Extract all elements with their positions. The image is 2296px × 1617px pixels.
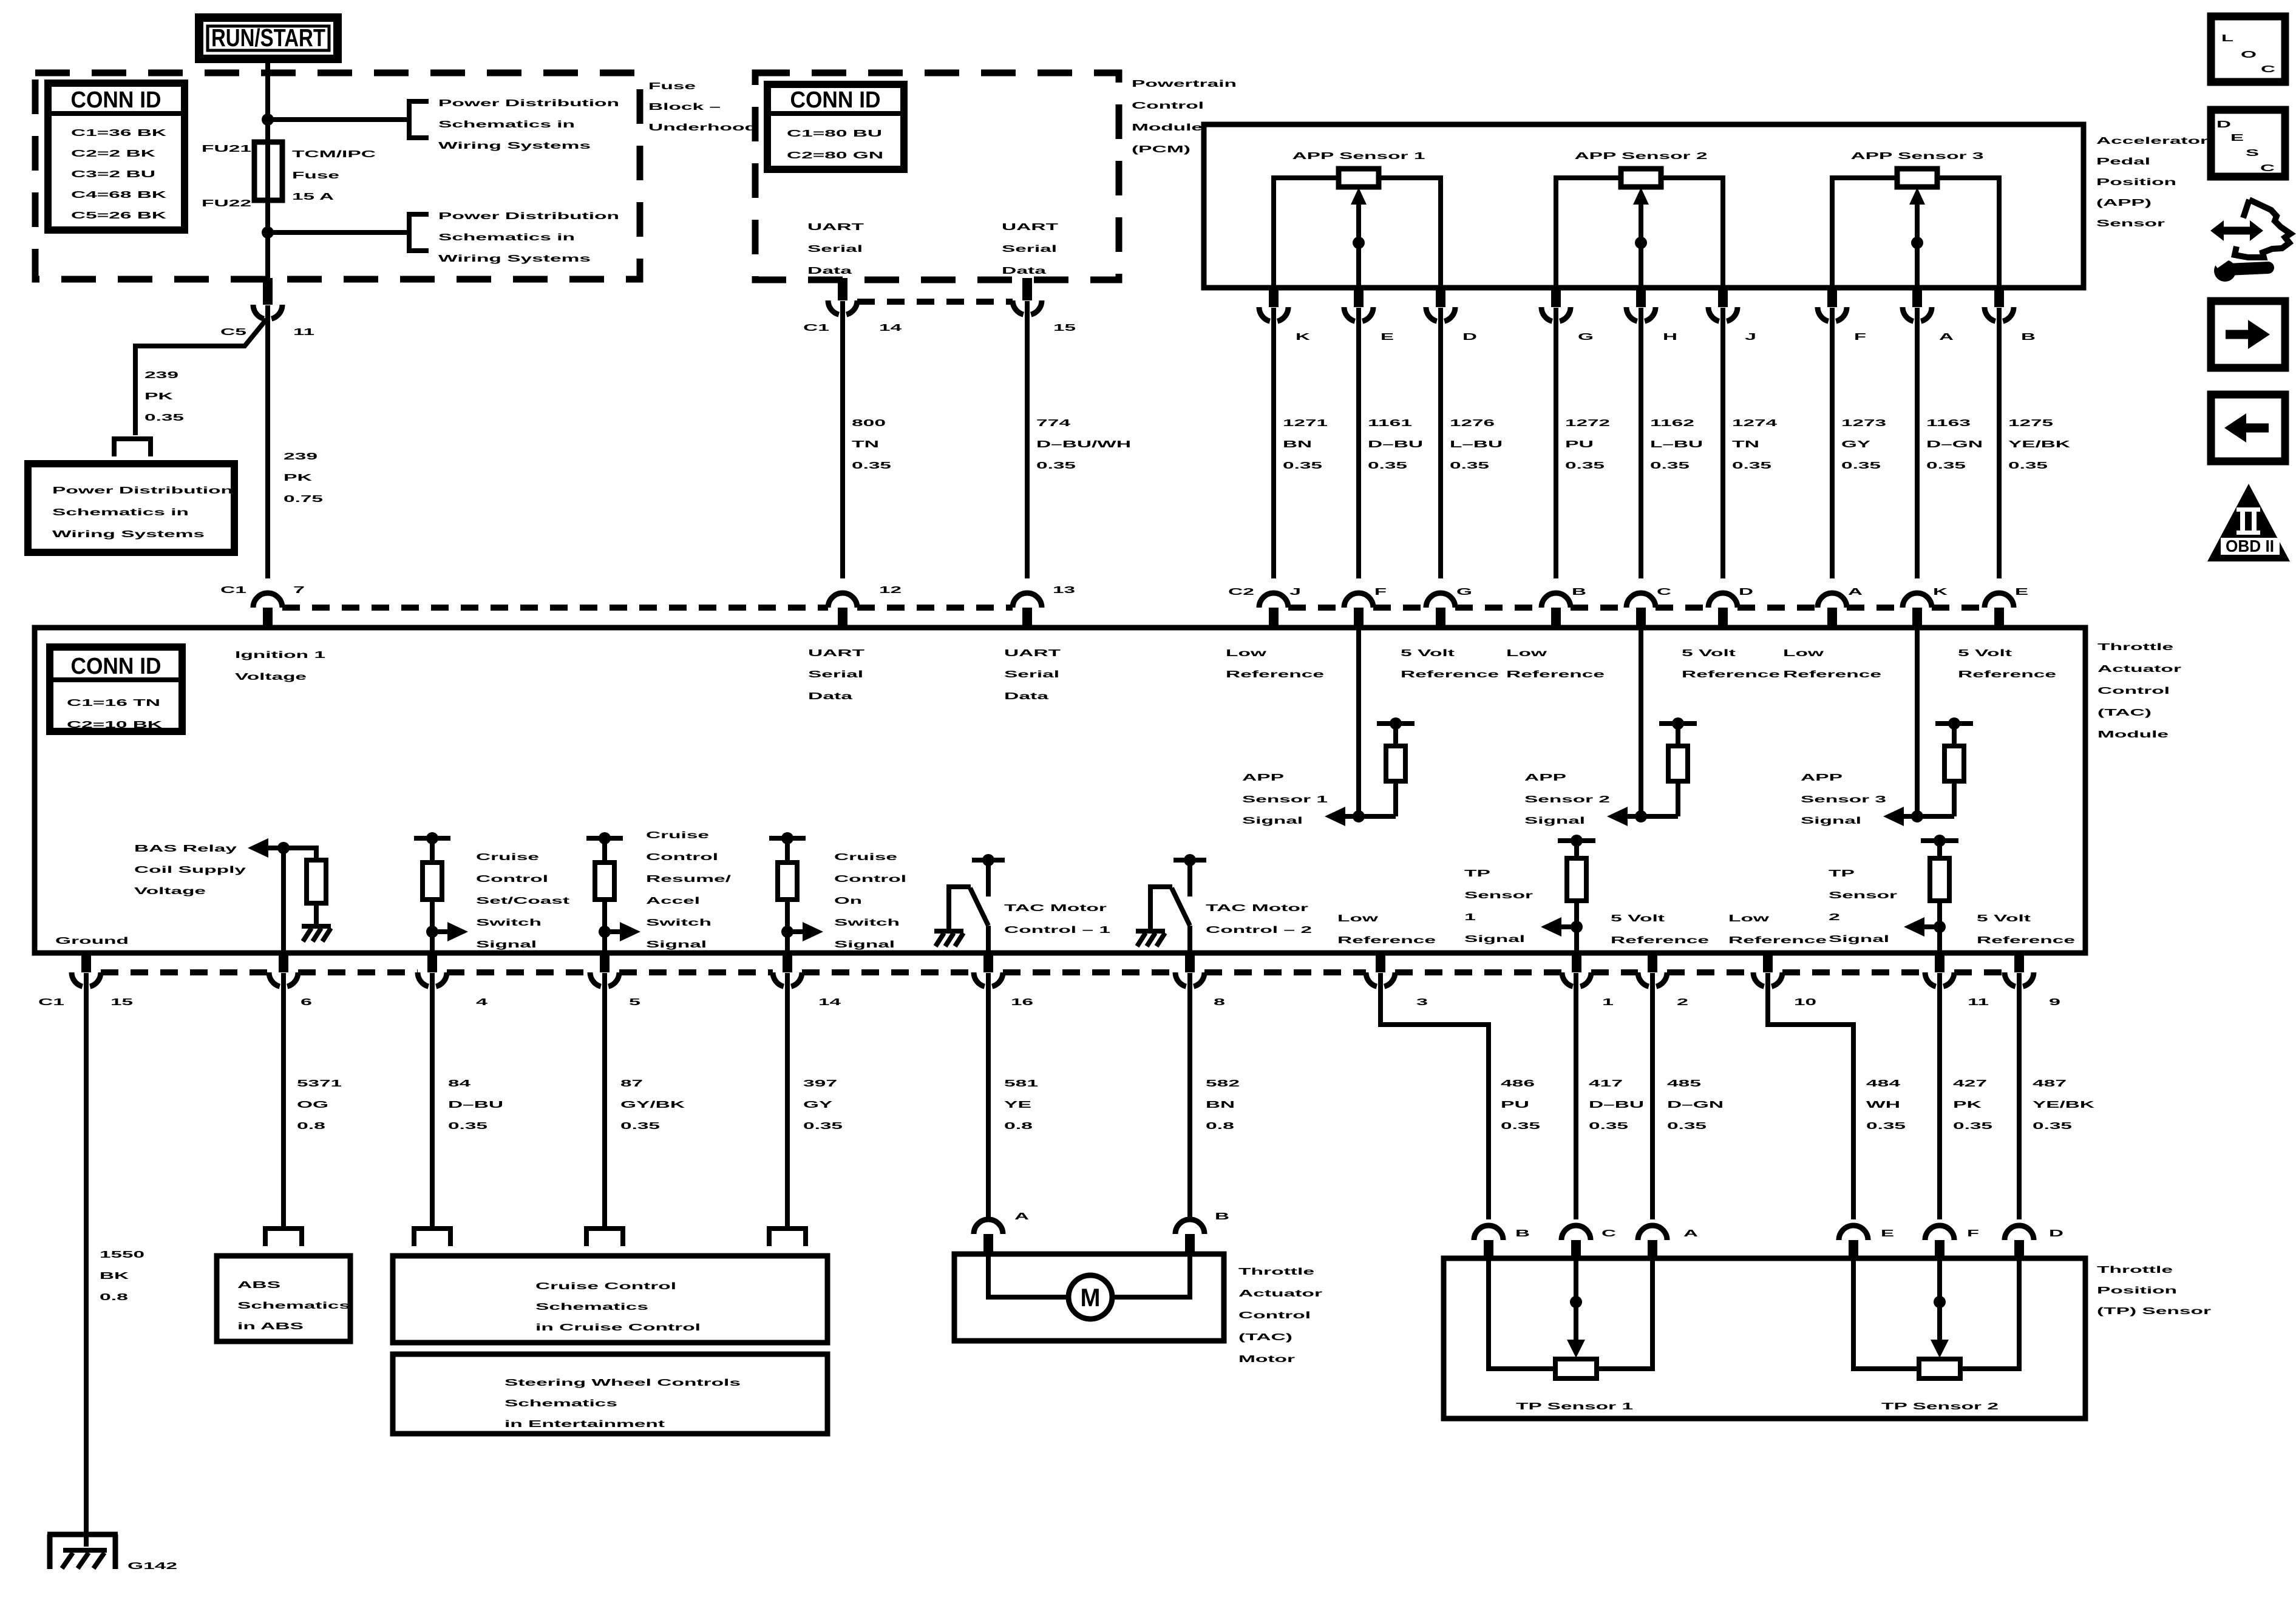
- svg-text:(PCM): (PCM): [1132, 144, 1190, 155]
- svg-text:Low: Low: [1783, 648, 1824, 659]
- label Low Reference TAC top: [1506, 648, 1605, 680]
- svg-text:Control – 1: Control – 1: [1004, 925, 1110, 935]
- connector TAC bottom pin 14: [773, 953, 802, 986]
- svg-text:Actuator: Actuator: [1238, 1289, 1322, 1299]
- label 239 PK 0.35: [144, 370, 184, 423]
- arrow Sensor 2 signal: [1607, 807, 1641, 826]
- bracket into ABS box: [265, 1229, 302, 1246]
- svg-text:APP: APP: [1801, 773, 1843, 783]
- label pin F PCM: [1854, 332, 1866, 342]
- svg-text:581: 581: [1004, 1079, 1038, 1089]
- label pin A TP sensor: [1683, 1229, 1699, 1239]
- svg-text:E: E: [2015, 587, 2029, 597]
- svg-text:FU21: FU21: [202, 144, 251, 154]
- svg-text:D: D: [2216, 120, 2231, 130]
- svg-text:11: 11: [293, 327, 314, 337]
- svg-text:485: 485: [1667, 1079, 1701, 1089]
- svg-text:0.8: 0.8: [1206, 1121, 1234, 1131]
- label pin 15: [1053, 323, 1076, 333]
- svg-text:Schematics: Schematics: [535, 1302, 648, 1312]
- svg-text:GY: GY: [1841, 439, 1871, 450]
- svg-text:C2=10 BK: C2=10 BK: [67, 720, 163, 730]
- svg-text:0.35: 0.35: [1589, 1121, 1628, 1131]
- svg-text:Data: Data: [808, 691, 852, 702]
- connector TP sensor pin D: [2005, 1225, 2034, 1261]
- svg-text:APP Sensor 2: APP Sensor 2: [1575, 151, 1708, 161]
- svg-text:CONN ID: CONN ID: [71, 654, 161, 679]
- dashed connector row TAC C1 top: [282, 605, 828, 611]
- label APP Sensor 3 Signal: [1801, 773, 1886, 826]
- svg-text:Block –: Block –: [648, 102, 721, 112]
- label pin A PCM: [1939, 332, 1954, 342]
- label pin 4: [476, 997, 487, 1008]
- node junction Sensor 1 signal: [1353, 810, 1365, 822]
- svg-text:APP Sensor 1: APP Sensor 1: [1292, 151, 1425, 161]
- svg-text:D–BU: D–BU: [1368, 439, 1423, 450]
- svg-text:8: 8: [1214, 997, 1225, 1008]
- svg-text:UART: UART: [808, 648, 864, 659]
- svg-text:11: 11: [1968, 997, 1989, 1008]
- svg-text:F: F: [1374, 587, 1387, 597]
- label 7 TAC top row: [293, 585, 305, 595]
- potentiometer TP Sensor 1: [1489, 1261, 1652, 1378]
- bracket into power distribution box: [114, 439, 151, 456]
- svg-text:Reference: Reference: [1977, 935, 2075, 946]
- svg-text:0.35: 0.35: [1501, 1121, 1540, 1131]
- svg-text:Serial: Serial: [1004, 670, 1059, 680]
- CONN ID table PCM: [767, 84, 904, 169]
- svg-text:Cruise: Cruise: [834, 852, 897, 863]
- label 5 Volt Reference TAC top: [1401, 648, 1499, 680]
- svg-text:0.35: 0.35: [1283, 461, 1322, 471]
- label 1163 D–GN 0.35: [1926, 418, 1983, 471]
- node junction cruise On: [781, 926, 793, 938]
- connector TAC top pin D: [1708, 593, 1737, 628]
- svg-text:C1=16 TN: C1=16 TN: [67, 698, 160, 708]
- wire 1276 L–BU 0.35: [1438, 308, 1443, 578]
- connector TAC bottom pin 4: [418, 953, 447, 986]
- svg-text:Voltage: Voltage: [134, 886, 206, 897]
- svg-text:O: O: [2241, 50, 2257, 60]
- svg-text:APP: APP: [1524, 773, 1567, 783]
- svg-text:Control: Control: [476, 874, 548, 884]
- motor M winding: [988, 1256, 1190, 1319]
- connector PCM C2 pin H: [1626, 286, 1656, 321]
- svg-text:Position: Position: [2097, 1286, 2177, 1296]
- svg-text:1272: 1272: [1565, 418, 1610, 429]
- label 1276 L–BU 0.35: [1450, 418, 1503, 471]
- label 1274 TN 0.35: [1732, 418, 1777, 471]
- connector PCM C2 pin B: [1985, 286, 2014, 321]
- svg-text:Signal: Signal: [1524, 816, 1585, 826]
- svg-text:C5: C5: [220, 327, 246, 337]
- svg-text:9: 9: [2049, 997, 2060, 1008]
- svg-text:14: 14: [818, 997, 841, 1008]
- svg-text:1274: 1274: [1732, 418, 1777, 429]
- wire 87 GY/BK to cruise control: [602, 973, 607, 1227]
- svg-text:Power Distribution: Power Distribution: [438, 98, 619, 109]
- resistor cruise On switch signal: [769, 832, 806, 953]
- junction node on ignition feed lower: [262, 226, 274, 239]
- label Low Reference TAC bottom: [1728, 914, 1827, 946]
- label 581 YE 0.8: [1004, 1079, 1038, 1131]
- label Power Distribution Schematics in Wiring Systems lower: [438, 211, 619, 264]
- box Steering Wheel Controls Schematics in Entertainment: [393, 1354, 827, 1434]
- label Low Reference TAC top: [1226, 648, 1324, 680]
- label pin K PCM: [1296, 332, 1311, 342]
- svg-text:Reference: Reference: [1506, 670, 1605, 680]
- svg-text:Signal: Signal: [1242, 816, 1303, 826]
- svg-text:Cruise: Cruise: [476, 852, 539, 863]
- connector PCM C2 pin E: [1344, 286, 1373, 321]
- label 774 D-BU/WH 0.35: [1036, 418, 1131, 471]
- bracket into cruise control box: [414, 1229, 450, 1246]
- svg-text:2: 2: [1829, 912, 1840, 923]
- svg-text:239: 239: [284, 452, 318, 462]
- svg-text:Cruise Control: Cruise Control: [535, 1281, 676, 1292]
- svg-text:UART: UART: [807, 222, 864, 232]
- potentiometer APP Sensor 2: [1556, 151, 1723, 288]
- svg-text:239: 239: [144, 370, 178, 381]
- label pin 14: [879, 323, 902, 333]
- svg-text:TN: TN: [1732, 439, 1759, 450]
- connector PCM C2 pin J: [1708, 286, 1737, 321]
- label 5 Volt Reference TAC bottom: [1977, 914, 2075, 946]
- wire 1161 D–BU 0.35: [1356, 308, 1361, 578]
- svg-text:Signal: Signal: [1464, 934, 1525, 944]
- svg-text:FU22: FU22: [202, 198, 251, 209]
- svg-text:0.8: 0.8: [297, 1121, 325, 1131]
- svg-text:(TAC): (TAC): [2097, 708, 2152, 718]
- label 427 PK 0.35: [1953, 1079, 1992, 1131]
- svg-text:OBD II: OBD II: [2226, 537, 2274, 555]
- svg-text:0.35: 0.35: [1926, 461, 1966, 471]
- wire 1274 TN 0.35: [1720, 308, 1725, 578]
- powertrain control module dashed box: [755, 73, 1119, 280]
- potentiometer APP Sensor 3: [1832, 151, 1999, 288]
- box throttle position TP sensor: [1444, 1258, 2085, 1419]
- svg-text:J: J: [1289, 587, 1301, 597]
- resistor pull-up Sensor 2: [1641, 717, 1697, 816]
- arrow BAS relay coil supply voltage: [248, 838, 284, 858]
- label UART Serial Data PCM pin 14: [807, 222, 864, 276]
- svg-text:Sensor: Sensor: [1464, 890, 1533, 901]
- svg-text:Position: Position: [2096, 177, 2176, 188]
- svg-text:OG: OG: [297, 1100, 328, 1110]
- label TAC Motor Control – 1: [1004, 903, 1110, 935]
- svg-text:Schematics in: Schematics in: [52, 507, 189, 518]
- svg-text:3: 3: [1416, 997, 1428, 1008]
- svg-text:TP Sensor 1: TP Sensor 1: [1516, 1402, 1633, 1412]
- svg-text:TP: TP: [1464, 869, 1491, 879]
- svg-text:G: G: [1578, 332, 1594, 342]
- resistor pull-up Sensor 3: [1917, 717, 1973, 816]
- svg-text:E: E: [2230, 133, 2244, 143]
- connector TAC bottom pin 5: [590, 953, 619, 986]
- svg-text:UART: UART: [1002, 222, 1058, 232]
- label Throttle Actuator Control (TAC) Module: [2097, 642, 2181, 740]
- connector PCM C2 pin D: [1426, 286, 1455, 321]
- label pin B TP sensor: [1515, 1229, 1530, 1239]
- svg-text:PK: PK: [144, 392, 174, 402]
- svg-text:Underhood: Underhood: [648, 123, 757, 133]
- svg-text:Reference: Reference: [1401, 670, 1499, 680]
- svg-text:C2=80 GN: C2=80 GN: [787, 151, 883, 161]
- svg-text:E: E: [1381, 332, 1394, 342]
- svg-text:1550: 1550: [100, 1250, 144, 1260]
- svg-text:(APP): (APP): [2096, 198, 2152, 208]
- connector TAC bottom pin 1: [1562, 953, 1591, 986]
- resistor pull-up TP Sensor 1 signal: [1558, 835, 1595, 927]
- label pin 2: [1677, 997, 1688, 1008]
- svg-text:Actuator: Actuator: [2097, 664, 2181, 674]
- svg-text:Module: Module: [2097, 730, 2169, 740]
- svg-text:774: 774: [1036, 418, 1070, 429]
- svg-text:Throttle: Throttle: [2097, 642, 2173, 653]
- potentiometer APP Sensor 1: [1274, 151, 1441, 288]
- connector TAC bottom pin 15: [72, 953, 101, 986]
- label pin 8: [1214, 997, 1225, 1008]
- node junction Sensor 3 signal: [1911, 810, 1923, 822]
- svg-text:Reference: Reference: [1337, 935, 1436, 946]
- svg-text:Ground: Ground: [55, 936, 129, 946]
- svg-text:0.35: 0.35: [803, 1121, 843, 1131]
- wire Sensor 2 signal into TAC: [1639, 628, 1643, 816]
- connector TAC top pin G: [1426, 593, 1455, 628]
- bracket reference power distribution lower: [409, 214, 429, 251]
- connector TAC bottom pin 2: [1638, 953, 1667, 986]
- label 5 Volt Reference TAC bottom: [1611, 914, 1709, 946]
- svg-text:A: A: [1848, 587, 1863, 597]
- wire 582 BN 0.8 to TAC motor: [1187, 973, 1192, 1219]
- wire TP sensor 2 signal to pin: [1937, 927, 1942, 953]
- svg-text:484: 484: [1866, 1079, 1900, 1089]
- svg-text:5 Volt: 5 Volt: [1682, 648, 1736, 659]
- switch node RUN/START box: [199, 18, 338, 59]
- svg-text:D: D: [1462, 332, 1477, 342]
- svg-text:0.75: 0.75: [284, 494, 323, 504]
- svg-text:TP: TP: [1829, 869, 1855, 879]
- connector TP sensor pin F: [1925, 1225, 1954, 1261]
- label 1272 PU 0.35: [1565, 418, 1610, 471]
- label 1161 D–BU 0.35: [1368, 418, 1423, 471]
- svg-text:15 A: 15 A: [292, 192, 335, 202]
- label 417 D-BU 0.35: [1589, 1079, 1644, 1131]
- connector TAC top pin C: [1626, 593, 1656, 628]
- connector TAC bottom pin 6: [269, 953, 298, 986]
- svg-text:D: D: [1739, 587, 1753, 597]
- svg-text:1163: 1163: [1926, 418, 1971, 429]
- svg-text:486: 486: [1501, 1079, 1535, 1089]
- bracket into cruise control box: [769, 1229, 806, 1246]
- label 12 TAC top row: [879, 585, 902, 595]
- connector TAC top pin F: [1344, 593, 1373, 628]
- label pin H PCM: [1663, 332, 1677, 342]
- bracket reference power distribution upper: [409, 101, 429, 138]
- label 486 PU 0.35: [1501, 1079, 1540, 1131]
- label APP Sensor 1 Signal: [1242, 773, 1328, 826]
- svg-text:Signal: Signal: [476, 940, 537, 950]
- connector TAC bottom pin 8: [1175, 953, 1204, 986]
- label pin 5: [629, 997, 640, 1008]
- connector TAC top pin A: [1818, 593, 1847, 628]
- icon vehicle dog head with wrench: [2210, 200, 2291, 282]
- svg-text:TCM/IPC: TCM/IPC: [292, 149, 376, 160]
- svg-text:Low: Low: [1728, 914, 1770, 924]
- svg-text:Module: Module: [1132, 123, 1203, 133]
- wire 1271 BN 0.35: [1271, 308, 1276, 578]
- svg-text:BK: BK: [100, 1271, 129, 1281]
- label 1273 GY 0.35: [1841, 418, 1886, 471]
- icon arrow left box: [2211, 395, 2285, 461]
- arrow Sensor 3 signal: [1883, 807, 1917, 826]
- svg-text:CONN ID: CONN ID: [790, 87, 881, 113]
- label Throttle Position (TP) Sensor: [2097, 1265, 2211, 1317]
- label Fuse Block - Underhood: [648, 81, 757, 133]
- connector TAC bottom pin 10: [1753, 953, 1782, 986]
- svg-text:M: M: [1081, 1283, 1101, 1312]
- svg-text:1275: 1275: [2008, 418, 2053, 429]
- svg-text:Schematics in: Schematics in: [438, 120, 575, 130]
- label pin 10: [1794, 997, 1816, 1008]
- label 87 GY/BK 0.35: [620, 1079, 685, 1131]
- svg-text:Fuse: Fuse: [648, 81, 696, 92]
- svg-text:0.35: 0.35: [2033, 1121, 2072, 1131]
- label 5371 OG 0.8: [297, 1079, 342, 1131]
- svg-text:D–BU/WH: D–BU/WH: [1036, 439, 1131, 450]
- ground chassis TAC Motor Control – 2: [1136, 931, 1165, 946]
- connector TAC bottom pin 16: [974, 953, 1003, 986]
- svg-text:C1=80 BU: C1=80 BU: [787, 129, 882, 139]
- wire BAS relay coil supply voltage pin 6: [281, 848, 286, 953]
- svg-text:Serial: Serial: [1002, 244, 1057, 254]
- label C1 PCM: [803, 323, 829, 333]
- node junction Sensor 2 signal: [1635, 810, 1647, 822]
- junction node on ignition feed upper: [262, 114, 274, 126]
- svg-text:Control: Control: [2097, 686, 2170, 696]
- svg-text:C1: C1: [38, 997, 64, 1008]
- svg-text:Pedal: Pedal: [2096, 157, 2150, 167]
- label pin 9: [2049, 997, 2060, 1008]
- label Low Reference TAC top: [1783, 648, 1881, 680]
- svg-text:C: C: [2261, 64, 2276, 75]
- svg-text:APP: APP: [1242, 773, 1285, 783]
- label 485 D-GN 0.35: [1667, 1079, 1724, 1131]
- connector C1 pin 14 PCM: [828, 278, 857, 314]
- svg-text:Sensor: Sensor: [2096, 219, 2165, 229]
- svg-text:1276: 1276: [1450, 418, 1495, 429]
- svg-text:Schematics: Schematics: [237, 1301, 350, 1311]
- svg-text:PU: PU: [1501, 1100, 1529, 1110]
- label pin 14: [818, 997, 841, 1008]
- label pin G PCM: [1578, 332, 1594, 342]
- label Ignition 1 Voltage: [235, 650, 325, 682]
- svg-text:F: F: [1967, 1229, 1979, 1239]
- svg-text:2: 2: [1677, 997, 1688, 1008]
- label 1271 BN 0.35: [1283, 418, 1328, 471]
- svg-text:15: 15: [110, 997, 133, 1008]
- ground G142: [47, 1534, 118, 1569]
- svg-text:0.35: 0.35: [620, 1121, 660, 1131]
- svg-text:B: B: [2021, 332, 2036, 342]
- svg-text:4: 4: [476, 997, 487, 1008]
- svg-text:Power Distribution: Power Distribution: [52, 486, 233, 496]
- label Throttle Actuator Control (TAC) Motor: [1238, 1267, 1322, 1364]
- resistor cruise Set/Coast switch signal: [414, 832, 450, 953]
- label TAC Motor Control – 2: [1206, 903, 1312, 935]
- svg-text:0.35: 0.35: [1368, 461, 1407, 471]
- svg-text:Reference: Reference: [1611, 935, 1709, 946]
- svg-text:Voltage: Voltage: [235, 672, 307, 682]
- svg-text:Schematics in: Schematics in: [438, 232, 575, 243]
- svg-text:BN: BN: [1206, 1100, 1235, 1110]
- ground chassis TAC Motor Control – 1: [934, 931, 963, 946]
- bracket into cruise control box: [586, 1229, 623, 1246]
- svg-text:C2=2 BK: C2=2 BK: [71, 149, 156, 159]
- wire 1272 PU 0.35: [1554, 308, 1558, 578]
- svg-text:10: 10: [1794, 997, 1816, 1008]
- svg-text:Accel: Accel: [646, 896, 700, 906]
- ground chassis BAS relay: [302, 926, 331, 941]
- label pin 11: [1968, 997, 1989, 1008]
- label G142: [127, 1561, 177, 1571]
- fuse FU21/FU22 TCM/IPC 15A: [254, 142, 282, 200]
- label FU21: [202, 144, 251, 154]
- svg-text:Control: Control: [1132, 101, 1204, 111]
- svg-text:5 Volt: 5 Volt: [1958, 648, 2012, 659]
- svg-text:A: A: [1683, 1229, 1699, 1239]
- svg-text:G142: G142: [127, 1561, 177, 1571]
- label pin A TAC motor: [1014, 1212, 1030, 1222]
- wire 1275 YE/BK 0.35: [1997, 308, 2002, 578]
- svg-text:800: 800: [852, 418, 886, 429]
- label 239 PK 0.75: [284, 452, 323, 504]
- connector TAC motor pin A: [974, 1219, 1003, 1256]
- label pin 6: [301, 997, 312, 1008]
- svg-text:Data: Data: [1002, 266, 1046, 276]
- CONN ID table fuse block: [48, 83, 185, 230]
- svg-text:Switch: Switch: [834, 918, 900, 928]
- svg-text:L–BU: L–BU: [1450, 439, 1503, 450]
- label C1 TAC top row: [220, 585, 246, 595]
- svg-text:0.35: 0.35: [1565, 461, 1605, 471]
- svg-text:PU: PU: [1565, 439, 1594, 450]
- svg-text:(TP) Sensor: (TP) Sensor: [2097, 1306, 2211, 1317]
- svg-text:Wiring Systems: Wiring Systems: [438, 141, 591, 151]
- svg-text:Control: Control: [834, 874, 906, 884]
- wire branch to power distribution upper: [268, 117, 407, 122]
- label UART Serial Data PCM pin 15: [1002, 222, 1058, 276]
- svg-text:L: L: [2221, 33, 2233, 44]
- label 800 TN 0.35: [852, 418, 891, 471]
- label TP Sensor 1: [1516, 1402, 1633, 1412]
- svg-text:0.8: 0.8: [100, 1292, 128, 1303]
- svg-text:A: A: [1014, 1212, 1030, 1222]
- wire fuse to lower junction: [265, 200, 270, 279]
- svg-text:Wiring Systems: Wiring Systems: [52, 529, 205, 540]
- svg-text:5 Volt: 5 Volt: [1401, 648, 1455, 659]
- svg-text:D: D: [2049, 1229, 2063, 1239]
- svg-text:D–GN: D–GN: [1926, 439, 1983, 450]
- svg-text:D–GN: D–GN: [1667, 1100, 1724, 1110]
- label TCM/IPC Fuse 15 A: [292, 149, 376, 202]
- label A TAC top row: [1848, 587, 1863, 597]
- label K TAC top row: [1933, 587, 1948, 597]
- box Cruise Control Schematics in Cruise Control: [393, 1256, 827, 1343]
- wire 84 D–BU to cruise control: [430, 973, 435, 1227]
- svg-text:5: 5: [629, 997, 640, 1008]
- svg-text:5 Volt: 5 Volt: [1611, 914, 1665, 924]
